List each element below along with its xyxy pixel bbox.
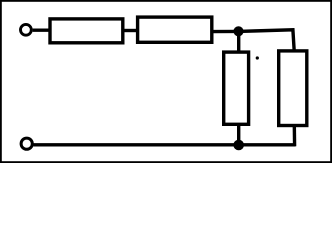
resistor R4 (right vertical): [279, 51, 307, 126]
resistor R1: [50, 19, 123, 43]
terminal T2 (bottom-left input): [21, 138, 32, 149]
wire node A down to R3: [237, 31, 240, 53]
wire R2 to node A: [212, 30, 239, 34]
resistor R3 (left vertical): [224, 52, 249, 124]
bottom wire T2 to R4 stub: [33, 143, 295, 146]
wire node A to top-right corner and down to R4: [239, 30, 295, 51]
junction node B (bottom): [233, 140, 244, 151]
terminal T1 (top-left input): [21, 24, 32, 35]
border frame: [1, 1, 331, 162]
speck (scan artifact): [256, 56, 259, 59]
junction node A (top): [233, 26, 243, 36]
resistor R2: [138, 17, 212, 42]
wire T1 to R1: [33, 29, 50, 32]
wire R4 down to bottom wire: [293, 125, 297, 147]
wire R3 to node B: [237, 124, 240, 146]
wire R1 to R2: [123, 29, 138, 32]
